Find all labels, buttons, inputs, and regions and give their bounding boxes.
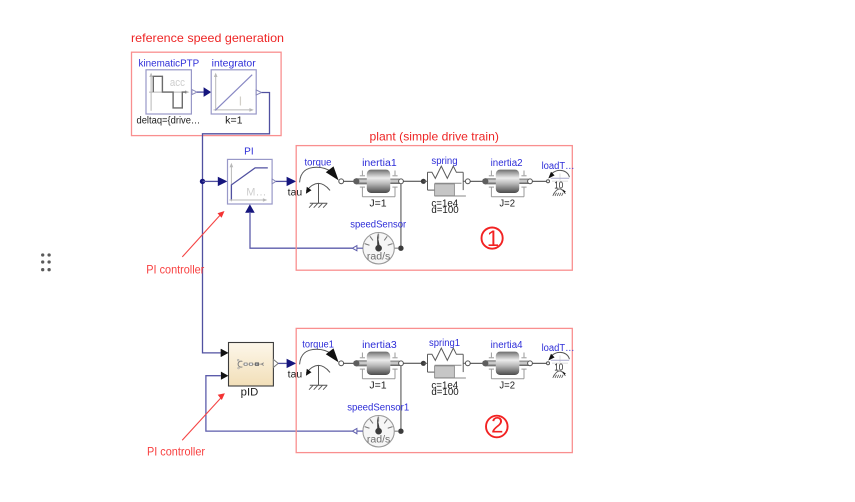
annotation circled 2 <box>486 413 508 438</box>
wire spring.flange_b to inertia2.flange_a <box>470 180 484 182</box>
svg-text:inertia2: inertia2 <box>491 158 523 169</box>
wire torque.flange to inertia1.flange_a <box>344 180 356 182</box>
svg-text:d=100: d=100 <box>431 387 459 398</box>
svg-text:I: I <box>239 94 243 109</box>
wire inertia3.flange_b to spring1.flange_a <box>403 362 421 364</box>
controller block pID <box>229 343 279 399</box>
torque source torque <box>300 157 339 207</box>
svg-text:kinematicPTP: kinematicPTP <box>139 58 200 69</box>
wire inertia4.flange_b to loadT1.flange <box>532 362 546 364</box>
node inertia2.flange_b <box>528 179 533 184</box>
annotation arrow PI controller (top) <box>146 211 224 276</box>
node torque1.flange <box>339 361 344 366</box>
wire inertia3.flange_b down to speedSensor1.flange <box>400 366 402 429</box>
svg-text:J=2: J=2 <box>499 380 515 391</box>
wire pID.y to torque1.tau <box>278 359 302 381</box>
controller block PI <box>228 147 276 213</box>
torque source torque1 <box>300 339 339 389</box>
svg-text:PI: PI <box>244 147 253 158</box>
inertia1 <box>353 158 399 209</box>
node inertia4.flange_b <box>528 361 533 366</box>
annotation arrow PI controller (bottom) <box>147 393 225 458</box>
pin pID.u2 input arrow <box>221 372 229 380</box>
svg-text:1: 1 <box>487 226 499 251</box>
node torque.flange <box>339 179 344 184</box>
wire kinematicPTP.y to integrator.u <box>197 87 211 97</box>
svg-text:pID: pID <box>241 387 259 399</box>
node spring.flange_b <box>465 179 470 184</box>
wire PI.y to torque.tau <box>276 177 302 199</box>
wire speedSensor1.w feedback to pID.u2 <box>206 376 353 431</box>
node inertia1.flange_b <box>399 179 404 184</box>
annotation circled 1 <box>482 226 503 251</box>
wire inertia1.flange_b to spring.flange_a <box>403 180 421 182</box>
inertia3 <box>353 340 399 391</box>
wire speedSensor1 right stub <box>394 430 398 432</box>
svg-text:tau: tau <box>288 370 303 381</box>
sensor speedSensor <box>350 219 407 264</box>
wire integrator.y trunk down to pID.u1 <box>203 93 270 357</box>
load torque loadT1 <box>542 343 575 378</box>
spring1 (spring-damper) <box>423 338 466 398</box>
spring (spring-damper) <box>423 156 466 216</box>
svg-text:J=2: J=2 <box>499 198 515 209</box>
svg-text:J=1: J=1 <box>369 380 387 391</box>
node loadT1.flange <box>547 362 550 365</box>
svg-text:d=100: d=100 <box>431 205 459 216</box>
svg-text:PI controller: PI controller <box>147 444 205 458</box>
sensor speedSensor1 <box>347 403 409 447</box>
node: branch junction to PI.u <box>200 179 205 184</box>
svg-text:acc: acc <box>170 77 185 89</box>
svg-text:inertia4: inertia4 <box>491 340 523 351</box>
node junction at spring1.flange_a <box>421 361 426 366</box>
inertia4 <box>482 340 528 391</box>
frame: reference speed generation box <box>131 31 284 136</box>
block integrator <box>211 58 261 126</box>
source block kinematicPTP <box>137 58 201 126</box>
node loadT.flange <box>547 180 550 183</box>
svg-text:inertia3: inertia3 <box>362 340 397 351</box>
svg-text:speedSensor1: speedSensor1 <box>347 403 409 414</box>
svg-text:spring: spring <box>431 156 457 167</box>
wire spring1.flange_b to inertia4.flange_a <box>470 362 484 364</box>
node inertia3.flange_b <box>399 361 404 366</box>
svg-text:reference speed generation: reference speed generation <box>131 31 284 45</box>
svg-text:plant (simple drive train): plant (simple drive train) <box>370 130 499 144</box>
frame: plant box 2 <box>296 328 572 452</box>
svg-text:integrator: integrator <box>212 58 257 69</box>
wire torque1.flange to inertia3.flange_a <box>344 362 356 364</box>
pin pID.u1 input arrow <box>221 349 229 357</box>
svg-text:2: 2 <box>491 413 503 438</box>
wire speedSensor right stub <box>394 247 398 249</box>
node junction at spring.flange_a <box>421 179 426 184</box>
node junction at speedSensor1.flange <box>398 429 403 434</box>
frame: plant (simple drive train) box 1 <box>296 130 572 271</box>
load torque loadT <box>542 161 575 196</box>
node junction at speedSensor.flange <box>398 246 403 251</box>
wire inertia2.flange_b to loadT.flange <box>532 180 546 182</box>
drag handle dots <box>41 253 51 271</box>
svg-text:spring1: spring1 <box>429 338 460 349</box>
wire inertia1.flange_b down to speedSensor.flange <box>400 184 402 246</box>
svg-text:k=1: k=1 <box>225 116 243 127</box>
inertia2 <box>482 158 528 209</box>
svg-text:speedSensor: speedSensor <box>350 219 407 230</box>
svg-text:deltaq={drive…: deltaq={drive… <box>137 116 201 127</box>
wire speedSensor.w feedback to PI lower input <box>250 212 352 248</box>
svg-text:PI controller: PI controller <box>146 262 204 276</box>
svg-text:J=1: J=1 <box>369 198 387 209</box>
wire junction to PI.u <box>203 177 228 186</box>
node spring1.flange_b <box>465 361 470 366</box>
svg-text:tau: tau <box>288 188 303 199</box>
svg-text:inertia1: inertia1 <box>362 158 397 169</box>
svg-text:M…: M… <box>246 186 266 198</box>
